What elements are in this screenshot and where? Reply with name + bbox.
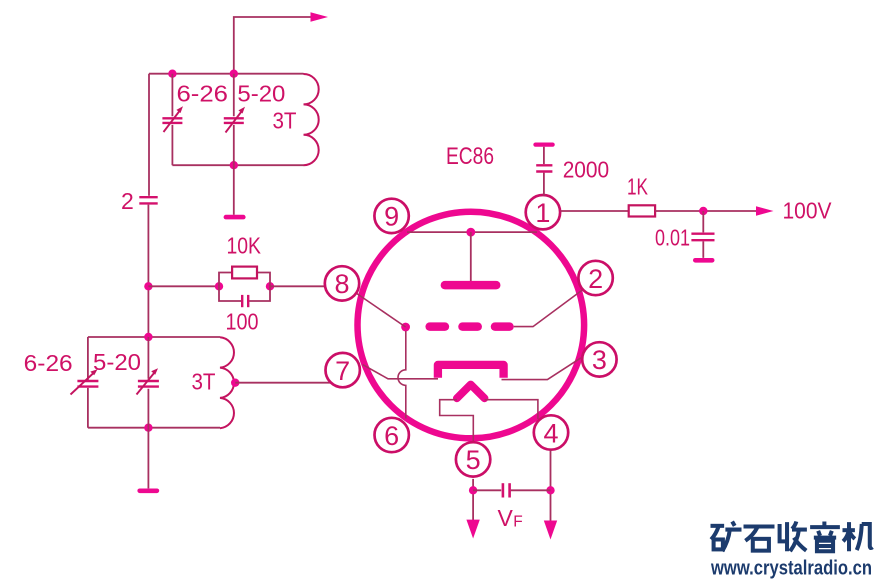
wire: heater to pin 4 — [485, 400, 538, 419]
capacitor C3 value 2 — [139, 197, 157, 203]
pin 4 — [534, 415, 568, 449]
wire: grid leak feed — [148, 285, 219, 287]
capacitor C4 100 — [219, 286, 270, 307]
node dot pin4 branch — [546, 486, 554, 494]
pin 5 — [456, 442, 490, 476]
svg-text:2000: 2000 — [563, 157, 610, 183]
glyph yin — [810, 522, 840, 552]
resistor R2 1K — [629, 205, 655, 216]
wire: lower tank left edge — [87, 337, 89, 428]
wire: L2 tap to pin 7 — [235, 382, 330, 384]
wire: pin 8 to grid — [356, 293, 405, 327]
svg-text:6-26: 6-26 — [24, 350, 73, 376]
wire: left branch down from top rail — [148, 74, 150, 196]
svg-text:7: 7 — [335, 356, 350, 386]
wire: pin 5 down — [472, 479, 474, 521]
node dot RC right — [266, 282, 274, 290]
wire: heater to pin 5 — [440, 400, 474, 443]
trimmer capacitor C5 6-26 (lower) — [71, 369, 99, 394]
svg-text:100V: 100V — [783, 197, 833, 223]
svg-text:0.01: 0.01 — [655, 224, 690, 250]
svg-text:3: 3 — [592, 345, 607, 375]
ground of lower tank — [140, 428, 157, 491]
svg-text:2: 2 — [588, 264, 603, 294]
wire B+ output with arrow — [234, 12, 328, 73]
pin 9 — [374, 199, 408, 233]
wire: RC to pin 8 — [270, 285, 327, 287]
arrow pin 4 heater supply — [544, 521, 557, 540]
anode plate — [445, 281, 496, 290]
svg-text:1K: 1K — [627, 173, 648, 199]
wire: anode lead — [470, 232, 472, 281]
svg-text:3T: 3T — [273, 108, 297, 134]
svg-text:1: 1 — [535, 198, 550, 228]
ground of C8 — [695, 258, 712, 263]
wire: grid down with hop over cathode wire — [398, 331, 406, 419]
capacitor C8 0.01 — [691, 211, 714, 258]
node dot grid-leak left — [144, 282, 152, 290]
wire: grid to pin 2 — [514, 290, 583, 327]
wire: cathode to pin 3 — [502, 358, 582, 380]
node dot pin5 branch — [469, 486, 477, 494]
wire: anode chord pin9 to pin1 — [407, 231, 537, 233]
node dot L2 tap — [231, 379, 239, 387]
wire: pin 4 down — [550, 450, 552, 522]
glyph ji — [843, 522, 873, 551]
svg-text:V: V — [498, 505, 514, 531]
triode U1 EC86 envelope — [358, 212, 585, 439]
glyph shou — [780, 522, 807, 552]
ground of upper tank — [226, 165, 243, 217]
resistor R1 10K — [219, 267, 270, 287]
node dot anode — [466, 228, 475, 237]
label VF — [498, 505, 523, 531]
node dot on top rail at C1 — [168, 70, 176, 78]
trimmer capacitor C1 6-26 (upper) — [162, 74, 183, 166]
node dot lower tank bottom — [144, 424, 152, 432]
node dot lower tank top — [144, 333, 152, 341]
wire: pin 1 to R2 — [561, 210, 629, 212]
svg-text:www.crystalradio.cn: www.crystalradio.cn — [710, 557, 872, 580]
svg-text:6-26: 6-26 — [177, 81, 229, 107]
pin 2 — [578, 261, 612, 295]
wire: R2 to 100V arrow — [655, 210, 757, 212]
arrow pin 5 heater supply — [466, 520, 479, 539]
capacitor C9 heater bypass — [473, 483, 550, 497]
wire: upper tank bottom rail — [172, 164, 303, 166]
svg-text:4: 4 — [543, 418, 558, 448]
svg-text:6: 6 — [384, 421, 399, 451]
capacitor C7 2000 top terminal — [536, 142, 553, 146]
node dot at 0.01 — [699, 207, 707, 215]
node dot grid — [401, 323, 410, 332]
pin 3 — [582, 342, 616, 376]
grid (dashed) — [430, 322, 510, 331]
svg-text:5-20: 5-20 — [237, 81, 285, 107]
pin 8 — [325, 266, 359, 300]
svg-text:3T: 3T — [192, 369, 216, 395]
pin 7 — [326, 353, 360, 387]
cathode — [438, 365, 504, 378]
node dot on bottom rail at center line — [230, 161, 238, 169]
svg-text:F: F — [513, 514, 522, 531]
heater filament — [457, 385, 485, 399]
svg-text:10K: 10K — [227, 233, 262, 259]
node dot on top rail at center line — [230, 70, 238, 78]
node dot RC left — [215, 282, 223, 290]
svg-text:5-20: 5-20 — [93, 349, 141, 375]
inductor L1 3T (upper) — [304, 74, 319, 165]
glyph kuang — [711, 522, 742, 552]
svg-text:9: 9 — [384, 202, 399, 232]
trimmer capacitor C6 5-20 (lower) — [137, 337, 159, 428]
svg-text:5: 5 — [466, 445, 481, 475]
wire: pin 7 to cathode — [363, 365, 438, 379]
svg-text:8: 8 — [334, 269, 349, 299]
glyph shi — [744, 526, 775, 550]
svg-text:2: 2 — [121, 188, 134, 214]
trimmer capacitor C2 5-20 (upper) — [224, 74, 245, 166]
watermark site logo — [711, 522, 873, 552]
capacitor C7 2000 — [536, 147, 552, 196]
svg-text:100: 100 — [226, 309, 259, 335]
inductor L2 3T (lower) — [220, 337, 234, 428]
wire: left rail from C3 down to lower tank — [147, 205, 149, 337]
svg-text:EC86: EC86 — [446, 143, 494, 170]
pin 1 — [526, 195, 560, 229]
wire: lower tank top rail — [88, 336, 220, 338]
arrow to 100V supply — [756, 206, 774, 215]
pin 6 — [375, 418, 409, 452]
wire: lower tank bottom rail — [88, 427, 220, 429]
wire: upper tank top rail — [149, 73, 304, 75]
